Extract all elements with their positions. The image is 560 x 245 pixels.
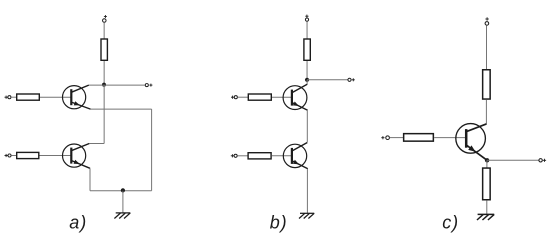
wire: [485, 100, 487, 125]
node output (b): [305, 78, 309, 82]
resistor base 2 (a): [17, 152, 39, 158]
power terminal V+ (a): [103, 15, 107, 22]
wire: [11, 96, 16, 98]
input terminal 2 (a): [5, 154, 12, 157]
resistor collector (c): [483, 70, 491, 99]
resistor load (a): [101, 39, 107, 60]
input terminal 2 (b): [231, 154, 237, 157]
wire: [103, 85, 105, 143]
wire: [89, 143, 104, 145]
wire: [487, 159, 539, 161]
wire: [486, 200, 488, 214]
power terminal V+ (c): [485, 17, 489, 25]
label c): [442, 213, 459, 233]
label a): [69, 213, 87, 233]
wire: [91, 108, 152, 110]
resistor base 1 (b): [248, 94, 271, 100]
wire: [103, 61, 105, 85]
wire: [390, 137, 404, 139]
transistor Q (c): [456, 124, 487, 161]
wire: [272, 155, 292, 157]
ground (b): [299, 213, 314, 218]
resistor emitter (c): [483, 168, 491, 200]
resistor load (b): [304, 39, 310, 60]
transistor Q lower (b): [283, 143, 308, 169]
label b): [270, 213, 288, 233]
svg-text:a): a): [69, 213, 87, 233]
ground (a): [114, 213, 130, 219]
wire: [89, 168, 91, 190]
wire: [11, 155, 16, 157]
wire: [237, 155, 248, 157]
transistor Q lower (a): [63, 144, 91, 169]
input terminal 1 (a): [5, 96, 11, 99]
node ground (a): [121, 188, 125, 192]
output terminal (a): [145, 84, 152, 87]
wire: [306, 169, 308, 213]
output terminal (b): [348, 78, 355, 81]
wire: [151, 109, 153, 191]
node output (a): [102, 83, 106, 87]
wire: [306, 61, 308, 80]
input terminal 1 (b): [231, 96, 237, 99]
wire: [486, 25, 488, 69]
wire: [434, 137, 466, 139]
wire: [40, 96, 71, 98]
resistor base 1 (a): [17, 94, 40, 100]
wire: [306, 110, 308, 142]
wire: [89, 84, 145, 86]
power terminal V+ (b): [305, 15, 308, 22]
wire: [40, 155, 72, 157]
wire: [90, 190, 152, 192]
wire: [307, 79, 348, 81]
wire: [486, 160, 488, 168]
wire: [122, 191, 124, 213]
input terminal (c): [381, 136, 389, 140]
transistor Q upper (b): [283, 84, 308, 110]
resistor base 2 (b): [248, 153, 271, 159]
wire: [306, 80, 308, 85]
wire: [272, 96, 292, 98]
ground (c): [477, 214, 494, 220]
wire: [103, 22, 105, 39]
wire: [306, 21, 308, 38]
resistor base (c): [404, 134, 434, 142]
output terminal (c): [539, 159, 546, 162]
transistor Q upper (a): [63, 85, 91, 109]
svg-text:c): c): [442, 213, 459, 233]
wire: [238, 96, 249, 98]
svg-text:b): b): [270, 213, 288, 233]
node emitter (c): [485, 158, 489, 162]
